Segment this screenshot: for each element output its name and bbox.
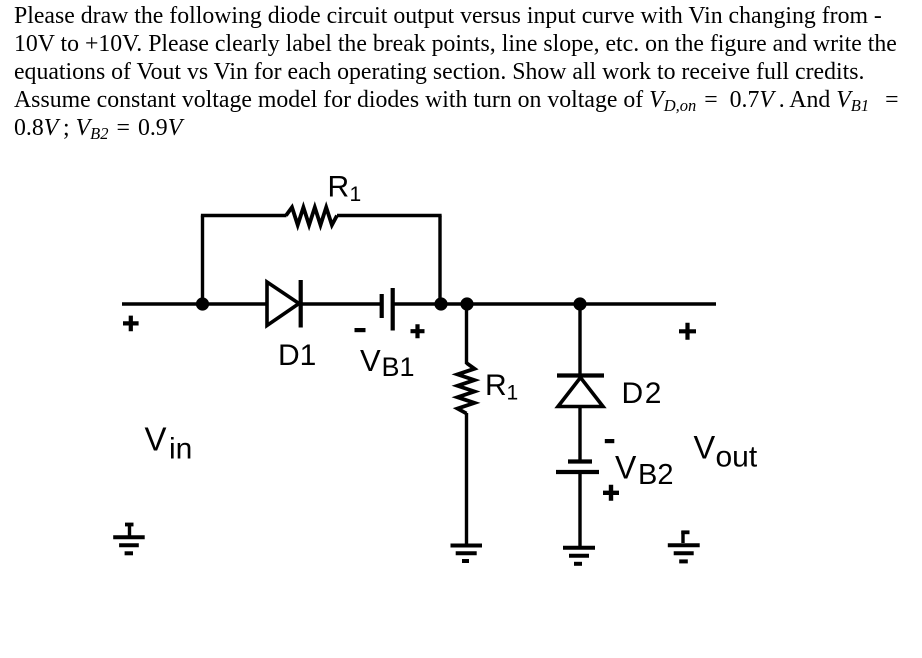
node A: input junction dot — [196, 297, 209, 310]
wire: right riser of feedback loop — [438, 216, 441, 305]
label plus (VB1) — [411, 324, 425, 338]
label Vin — [145, 421, 193, 466]
svg-text:V: V — [694, 430, 716, 466]
battery VB1 (horizontal, short bar left, long bar right) — [382, 288, 393, 331]
wire: VB2 to ground — [578, 472, 581, 548]
svg-text:1: 1 — [350, 183, 362, 206]
wire: between D2 and VB2 — [578, 406, 581, 460]
label minus (VB1) — [355, 328, 366, 332]
wire: output branch down from node D — [578, 304, 581, 374]
svg-text:out: out — [716, 441, 758, 474]
svg-text:R: R — [328, 171, 350, 204]
wire: left riser of feedback loop — [201, 216, 204, 305]
wire: main horizontal from VB1 to output — [393, 302, 716, 305]
label VB1 — [360, 343, 415, 382]
label D2 — [622, 377, 664, 410]
svg-text:B1: B1 — [382, 352, 415, 382]
label Vout — [694, 430, 758, 474]
svg-text:B2: B2 — [638, 459, 673, 491]
svg-text:in: in — [169, 433, 192, 466]
ground (shunt resistor) — [451, 546, 483, 562]
diode D2 (pointing up, cathode bar on top) — [557, 376, 604, 407]
label VB2 — [615, 450, 673, 492]
ground (Vout reference, floating) — [668, 531, 700, 561]
svg-text:V: V — [615, 450, 637, 486]
wire: main horizontal between D1 cathode and VB1 — [301, 302, 380, 305]
wire: shunt branch to ground — [465, 413, 468, 546]
label minus (VB2) — [605, 439, 615, 443]
svg-text:D1: D1 — [278, 339, 316, 372]
wire: top loop right segment — [337, 214, 442, 217]
svg-text:D2: D2 — [622, 377, 664, 410]
wire: main horizontal input segment — [122, 302, 267, 305]
svg-text:1: 1 — [507, 381, 519, 404]
node C: shunt branch dot — [460, 297, 473, 310]
label plus (Vin side) — [123, 316, 139, 332]
wire: top loop left segment — [201, 214, 287, 217]
svg-text:V: V — [145, 421, 167, 458]
label plus (VB2) — [603, 485, 619, 501]
ground (Vin reference, floating) — [113, 524, 145, 554]
resistor R1 (feedback, zigzag) — [286, 207, 337, 225]
diode D1 (series, pointing right) — [267, 280, 301, 328]
label plus (Vout side) — [679, 323, 696, 340]
node B: loop return dot — [434, 297, 447, 310]
ground (VB2 branch) — [563, 548, 595, 564]
wire: shunt branch down from node C — [465, 304, 468, 364]
label R1 (shunt resistor) — [485, 369, 518, 405]
label R1 (feedback resistor) — [328, 171, 362, 207]
battery VB2 (vertical, short bar top, long bar bottom) — [556, 462, 599, 473]
svg-text:R: R — [485, 369, 507, 402]
resistor R1 (shunt, vertical zigzag) — [458, 363, 475, 414]
svg-text:V: V — [360, 343, 381, 378]
label D1 — [278, 339, 316, 372]
node D: output branch dot — [573, 297, 586, 310]
